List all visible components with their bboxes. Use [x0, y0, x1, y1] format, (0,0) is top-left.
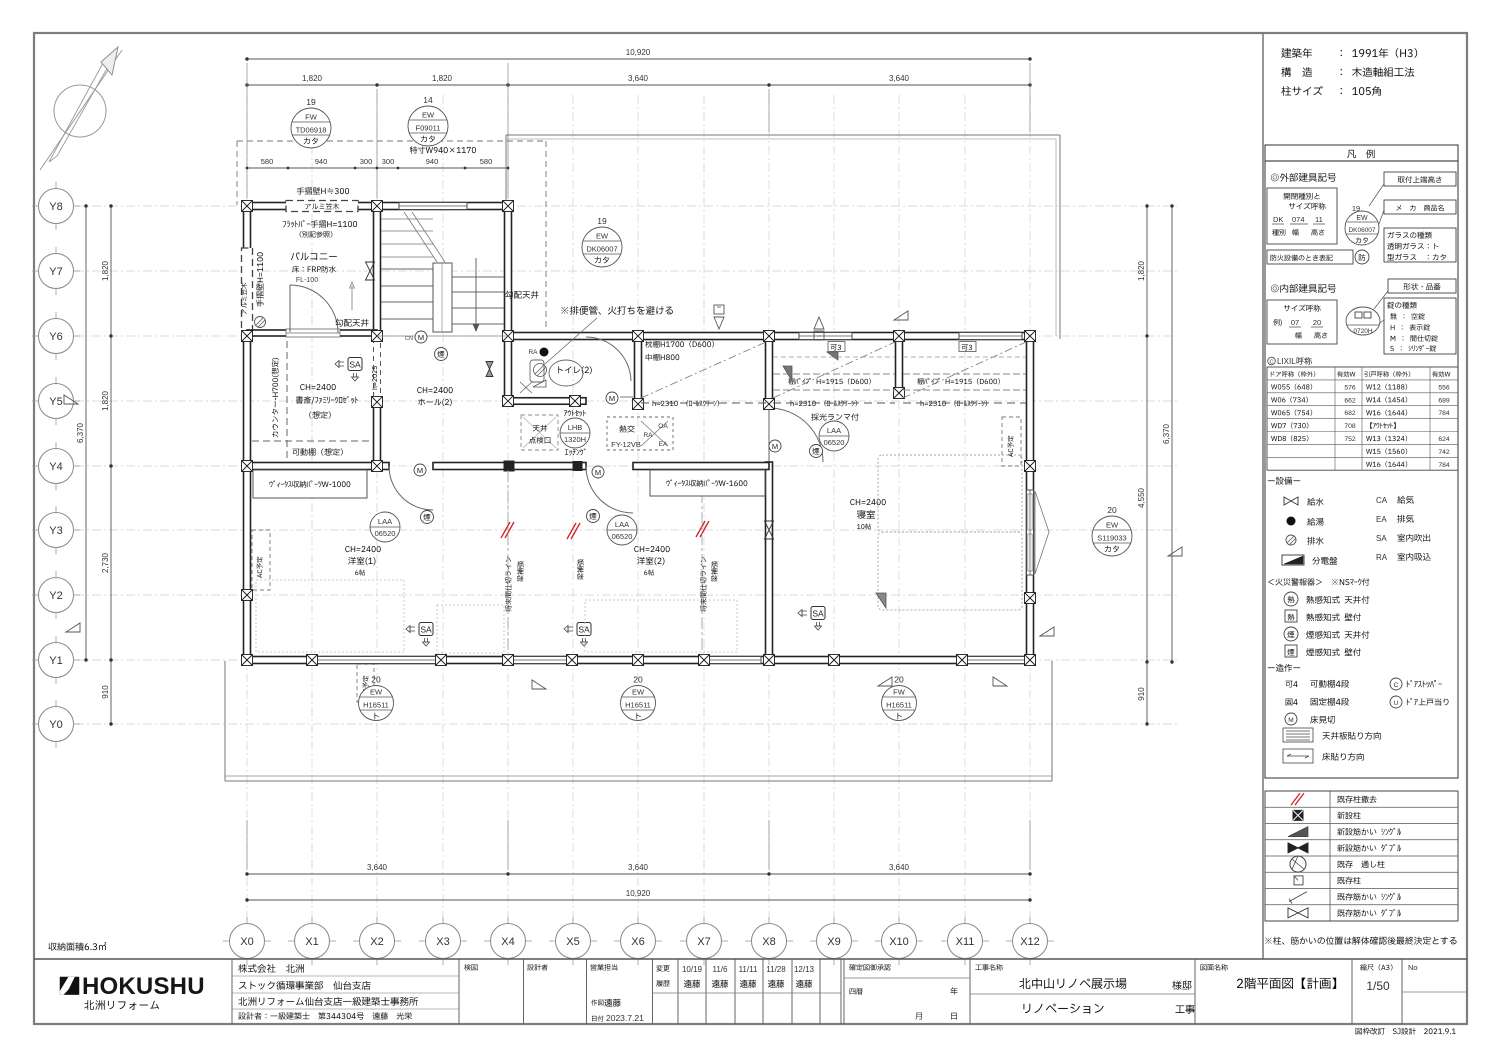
grid bubble Y3: [32, 529, 80, 531]
balcony arrow: [351, 285, 353, 310]
legend info block: [1281, 48, 1312, 58]
svg-text:FW: FW: [305, 113, 318, 122]
window: stair top (F09011): [399, 203, 467, 210]
svg-text:3,640: 3,640: [889, 863, 910, 872]
svg-text:X9: X9: [827, 936, 840, 948]
grid bubble X8: [745, 940, 793, 942]
grid bubble Y5: [32, 400, 80, 402]
bedroom bed outline: [878, 455, 1022, 532]
toilet door swing: [586, 337, 631, 381]
future partition marks: [501, 522, 510, 538]
wall: east exterior (X12): [1027, 336, 1034, 660]
pillar marks: [242, 201, 1036, 666]
wall: balcony east / stair west (X2): [374, 206, 381, 336]
grid bubble X4: [484, 940, 532, 942]
yoshitsu1 AC: [252, 530, 270, 590]
grid bubble Y7: [32, 270, 80, 272]
svg-text:20: 20: [1107, 505, 1117, 515]
bedroom brace marks: [765, 521, 774, 539]
svg-text:HOKUSHU: HOKUSHU: [82, 973, 205, 1000]
svg-text:1,820: 1,820: [432, 74, 453, 83]
svg-text:F09011: F09011: [416, 124, 441, 133]
svg-text:Y8: Y8: [49, 201, 62, 213]
svg-text:07: 07: [1291, 318, 1299, 327]
north arrow: [54, 85, 106, 137]
svg-text:1,820: 1,820: [1137, 260, 1146, 281]
svg-text:580: 580: [261, 157, 274, 166]
wall: stair east / toilet west (X4): [505, 206, 512, 404]
study room labels: [300, 384, 335, 390]
grid bubble X1: [288, 940, 336, 942]
svg-text:DK: DK: [1273, 215, 1283, 224]
svg-text:EW: EW: [632, 688, 645, 697]
svg-text:DK06007: DK06007: [1348, 227, 1375, 234]
bedroom door marks: [769, 440, 781, 452]
svg-text:X3: X3: [436, 936, 449, 948]
grid bubble Y4: [32, 465, 80, 467]
svg-text:LIXIL: LIXIL: [1277, 357, 1296, 366]
windows on south wall: [314, 657, 437, 664]
top dimension row 1,820/1,820/3,640/3,640: [247, 84, 1030, 86]
svg-text:1,820: 1,820: [101, 260, 110, 281]
svg-text:11/28: 11/28: [766, 965, 786, 974]
roof area AC unit: [357, 664, 374, 702]
svg-text:X12: X12: [1020, 936, 1040, 948]
legend: internal size box: [1267, 300, 1337, 344]
grid bubble X9: [810, 940, 858, 942]
yoshitsu2 dotted outlines: [437, 605, 504, 653]
void / lower roof outline top-right: [506, 134, 1060, 136]
vitas cabinet W-1000: [253, 470, 367, 498]
svg-text:6,370: 6,370: [1162, 423, 1171, 444]
grid bubble X5: [549, 940, 597, 942]
svg-text:EA: EA: [659, 441, 668, 448]
door: yoshitsu1: [389, 466, 433, 510]
grid bubble X7: [680, 940, 728, 942]
approval cell: [849, 964, 891, 970]
svg-text:1,820: 1,820: [101, 390, 110, 411]
svg-text:X7: X7: [697, 936, 710, 948]
window: bedroom east sliding: [1027, 490, 1034, 575]
new pillar filled marks on Y4: [504, 461, 514, 471]
hall labels: [417, 387, 452, 393]
svg-text:0720H: 0720H: [1353, 328, 1372, 335]
legend: size box: [1267, 188, 1337, 244]
svg-text:074: 074: [1292, 215, 1305, 224]
svg-text:TD06918: TD06918: [296, 126, 327, 135]
HOKUSHU logo: [60, 977, 79, 995]
svg-text:12/13: 12/13: [794, 965, 815, 974]
wall: south exterior (Y1): [247, 657, 1030, 664]
yoshitsu2 labels: [607, 515, 637, 545]
svg-text:C: C: [1270, 359, 1274, 365]
svg-text:X4: X4: [501, 936, 514, 948]
svg-text:Y0: Y0: [49, 719, 62, 731]
svg-text:LAA: LAA: [827, 426, 841, 435]
svg-text:EW: EW: [1356, 215, 1368, 222]
wall: left exterior (X0): [244, 206, 251, 660]
legend: shape box: [1388, 279, 1456, 293]
svg-text:X10: X10: [889, 936, 909, 948]
svg-text:C: C: [1394, 682, 1399, 689]
closet C labels: [959, 342, 976, 352]
svg-text:624: 624: [1438, 436, 1450, 443]
svg-text:20: 20: [633, 675, 643, 685]
svg-text:11/6: 11/6: [713, 965, 729, 974]
svg-text:662: 662: [1344, 397, 1356, 404]
svg-text:EW: EW: [1106, 521, 1119, 530]
svg-text:H16511: H16511: [886, 701, 912, 710]
wall: study east (X2) lower: [374, 336, 381, 341]
svg-text:910: 910: [1137, 687, 1146, 701]
svg-text:FW: FW: [893, 688, 906, 697]
svg-text:X11: X11: [956, 936, 975, 948]
closet A labels: [645, 341, 714, 348]
svg-text:S119033: S119033: [1097, 534, 1126, 543]
legend: fire box: [1267, 250, 1353, 264]
svg-text:742: 742: [1438, 449, 1450, 456]
wall: bedroom west lower (X8): [766, 462, 773, 660]
storage area note: [48, 942, 106, 951]
balcony labels: [297, 187, 349, 194]
bedroom SA: [811, 607, 825, 620]
door: yoshitsu2: [586, 466, 633, 513]
yoshitsu1 dotted floor outline: [256, 580, 404, 652]
svg-text:3,640: 3,640: [628, 74, 649, 83]
svg-text:784: 784: [1438, 462, 1450, 469]
handrail dashed band on balcony top wall: [286, 201, 358, 212]
svg-text:CA: CA: [1376, 496, 1388, 505]
toilet M mark: [606, 392, 618, 404]
right dimension column: [1146, 206, 1148, 336]
closet diag braces: [783, 366, 792, 381]
svg-text:20: 20: [894, 675, 904, 685]
grid bubble Y2: [32, 594, 80, 596]
svg-text:682: 682: [1344, 410, 1356, 417]
svg-text:SA: SA: [349, 360, 361, 370]
svg-text:EW: EW: [422, 111, 435, 120]
svg-text:RA: RA: [528, 349, 538, 356]
svg-text:RA: RA: [643, 432, 653, 439]
toilet fixture: [549, 360, 583, 386]
svg-text:2023.7.21: 2023.7.21: [606, 1013, 644, 1023]
legend: external fixtures header: [1271, 173, 1336, 182]
svg-text:752: 752: [1344, 436, 1356, 443]
grid bubble X0: [223, 940, 271, 942]
svg-text:M: M: [418, 333, 424, 342]
grid bubble Y6: [32, 335, 80, 337]
svg-text:U: U: [1394, 700, 1399, 707]
legend: fire alarm: [1268, 578, 1369, 585]
grid lines: [75, 95, 1180, 920]
svg-text:SA: SA: [1376, 534, 1387, 543]
svg-text:19: 19: [597, 216, 607, 226]
structure legend table: [1265, 791, 1458, 921]
window: Y6 fix windows: [799, 333, 852, 340]
svg-text:M: M: [417, 466, 423, 475]
svg-text:SA: SA: [420, 625, 432, 635]
balcony door opening + swing: [286, 329, 340, 337]
svg-text:M: M: [595, 468, 601, 477]
svg-text:EA: EA: [1376, 515, 1387, 524]
legend: maker box: [1384, 200, 1456, 214]
svg-text:LAA: LAA: [378, 517, 392, 526]
svg-text:10,920: 10,920: [626, 889, 651, 898]
svg-text:Y7: Y7: [49, 266, 62, 278]
svg-text:M: M: [772, 442, 778, 451]
closet roll screen dashed lines: [641, 402, 766, 404]
wall: middle (Y4) study/hall south: [247, 463, 389, 470]
grid bubble Y0: [32, 723, 80, 725]
brace mark near stair: [486, 362, 493, 377]
toilet: [558, 366, 591, 374]
svg-text:300: 300: [360, 157, 373, 166]
title block frame: [34, 958, 1467, 960]
bottom dimension 3,640 x3: [247, 873, 1030, 875]
svg-text:Y5: Y5: [49, 396, 62, 408]
svg-text:EW: EW: [596, 232, 609, 241]
svg-text:DK06007: DK06007: [586, 245, 617, 254]
svg-text:556: 556: [1438, 384, 1450, 391]
label kobai-tenjo x2: [335, 319, 368, 327]
svg-text:20: 20: [1313, 318, 1321, 327]
grid bubble X3: [419, 940, 467, 942]
vent arrows above Y6 wall: [714, 305, 724, 314]
grid bubble X10: [875, 940, 923, 942]
svg-text:RA: RA: [1376, 553, 1388, 562]
svg-text:1/50: 1/50: [1366, 979, 1390, 993]
bedroom labels: [850, 499, 885, 505]
grid bubble Y8: [32, 205, 80, 207]
revision note: [1356, 1028, 1456, 1035]
svg-text:6,370: 6,370: [76, 422, 85, 443]
structure note: [1265, 937, 1456, 945]
svg-text:10,920: 10,920: [626, 48, 651, 57]
svg-text:784: 784: [1438, 410, 1450, 417]
svg-text:576: 576: [1344, 384, 1356, 391]
svg-text:2,730: 2,730: [101, 552, 110, 573]
grid bubble X6: [614, 940, 662, 942]
svg-text:X8: X8: [762, 936, 775, 948]
svg-text:06520: 06520: [612, 532, 633, 541]
wall: north exterior east part (Y6): [508, 333, 1030, 340]
bottom dimension 10,920: [247, 899, 1030, 901]
study counter dashes: [286, 341, 288, 462]
svg-text:708: 708: [1344, 423, 1356, 430]
legend: internal fixtures header: [1271, 284, 1336, 293]
note: haibenkan: [561, 306, 673, 315]
svg-text:Y6: Y6: [49, 331, 62, 343]
toilet removal X mark: [520, 382, 532, 393]
svg-text:11: 11: [1315, 215, 1323, 224]
revision columns: [656, 965, 669, 971]
svg-text:10/19: 10/19: [682, 965, 703, 974]
svg-text:1320H: 1320H: [564, 435, 586, 444]
svg-text:Y2: Y2: [49, 590, 62, 602]
svg-text:06520: 06520: [375, 529, 396, 538]
legend: floor direction: [1283, 749, 1313, 763]
ceiling access + vent units: [521, 415, 558, 450]
legend: top height box: [1384, 172, 1456, 186]
stairs: [381, 212, 504, 332]
legend: glass box: [1384, 228, 1456, 262]
svg-text:Y4: Y4: [49, 461, 62, 473]
future partition dash-dot lines: [507, 470, 509, 656]
wall: bedroom west upper (X8): [766, 336, 773, 404]
svg-text:SA: SA: [812, 609, 824, 619]
grid bubble X2: [353, 940, 401, 942]
svg-text:M: M: [609, 394, 615, 403]
legend panel divider: [1262, 33, 1264, 959]
dashed roof edge over balcony: [237, 140, 546, 142]
top dimension 10,920: [247, 58, 1030, 60]
legend: LIXIL table: [1268, 357, 1276, 365]
svg-text:EW: EW: [370, 688, 383, 697]
window swing triangle: [1035, 491, 1049, 574]
company cell: [238, 964, 303, 973]
wall: closet stub (X10): [896, 336, 903, 396]
check cells: [464, 964, 477, 970]
svg-text:3,640: 3,640: [367, 863, 388, 872]
balcony left parapet dashed: [242, 248, 253, 332]
svg-text:X5: X5: [566, 936, 579, 948]
bedroom AC: [1002, 417, 1021, 466]
svg-text:689: 689: [1438, 397, 1450, 404]
grid bubble Y1: [32, 659, 80, 661]
wall: balcony south sill: [247, 330, 377, 336]
drawing name cell: [1201, 964, 1228, 970]
grid bubble X12: [1006, 940, 1054, 942]
vitas cabinet W-1600: [650, 470, 765, 496]
svg-text:X2: X2: [370, 936, 383, 948]
legend: lock box: [1384, 298, 1456, 354]
yoshitsu1 labels: [370, 512, 400, 542]
svg-text:No: No: [1408, 963, 1418, 972]
svg-text:580: 580: [480, 157, 493, 166]
svg-text:940: 940: [426, 157, 439, 166]
label h=2025: [372, 366, 377, 389]
svg-text:LAA: LAA: [615, 520, 629, 529]
legend: equipment: [1268, 477, 1300, 485]
bedroom door swing: [768, 408, 770, 463]
balcony drain: [255, 317, 266, 328]
svg-text:H16511: H16511: [363, 701, 389, 710]
project name cell: [975, 964, 1002, 970]
grid bubble X11: [941, 940, 989, 942]
top sub-dimension 580/940/300/300/940/580: [247, 167, 508, 169]
closet B labels: [828, 342, 845, 352]
svg-text:OA: OA: [658, 423, 668, 430]
svg-text:Y3: Y3: [49, 525, 62, 537]
dimension extension lines top: [246, 63, 248, 198]
svg-text:19: 19: [306, 97, 316, 107]
svg-text:300: 300: [382, 157, 395, 166]
svg-text:X0: X0: [240, 936, 253, 948]
legend box title: [1265, 145, 1458, 161]
study SA outlet: [348, 358, 362, 371]
svg-text:14: 14: [423, 95, 433, 105]
svg-text:11/11: 11/11: [739, 965, 758, 974]
left dimension column: [110, 206, 112, 724]
legend: internal tag sample: [1346, 307, 1380, 335]
svg-text:X1: X1: [305, 936, 318, 948]
wall: toilet east (X6): [635, 336, 642, 404]
svg-text:SA: SA: [578, 625, 590, 635]
wall: top of balcony and stairwell (Y8): [247, 203, 508, 210]
flag markers: [894, 311, 908, 320]
svg-text:CN: CN: [405, 336, 413, 342]
title block row lines: [232, 975, 459, 977]
svg-text:LHB: LHB: [568, 423, 583, 432]
legend: joinery: [1268, 664, 1300, 672]
svg-text:06520: 06520: [824, 438, 845, 447]
svg-text:Y1: Y1: [49, 655, 62, 667]
lower roof outline bottom: [224, 661, 226, 781]
svg-text:3,640: 3,640: [889, 74, 910, 83]
stair bottom edge: [377, 335, 508, 337]
svg-text:1,820: 1,820: [302, 74, 323, 83]
svg-text:X6: X6: [631, 936, 644, 948]
svg-text:FL-100: FL-100: [296, 277, 318, 284]
svg-text:4,550: 4,550: [1137, 487, 1146, 508]
svg-text:910: 910: [101, 685, 110, 699]
svg-text:H16511: H16511: [625, 701, 651, 710]
svg-text:20: 20: [371, 675, 381, 685]
wall: toilet south: [508, 398, 586, 405]
svg-text:940: 940: [315, 157, 328, 166]
svg-text:3,640: 3,640: [628, 863, 649, 872]
svg-text:M: M: [1288, 717, 1293, 724]
legend: ceiling direction: [1283, 728, 1313, 742]
svg-text:FY-12VB: FY-12VB: [611, 440, 641, 449]
balcony brace mark: [366, 262, 375, 280]
